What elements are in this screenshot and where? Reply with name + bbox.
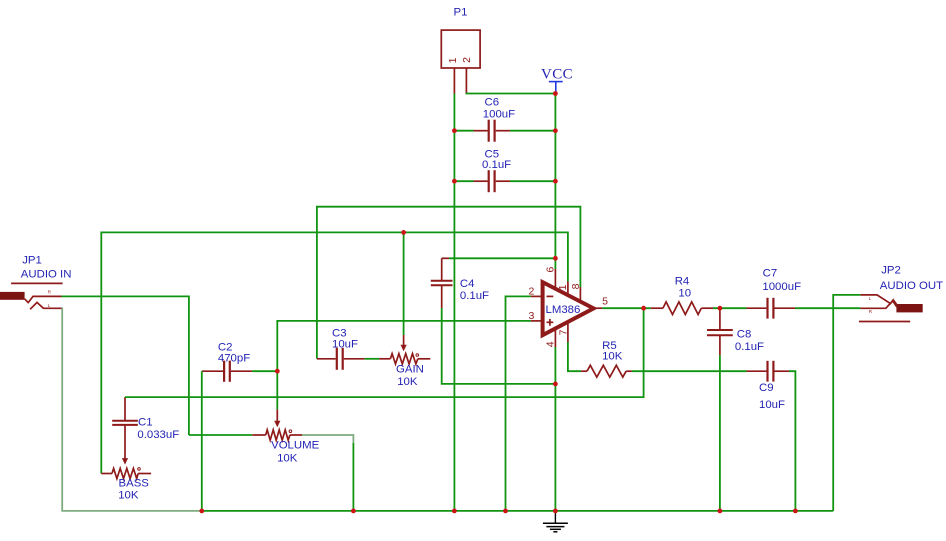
svg-text:AUDIO IN: AUDIO IN [21,269,72,281]
svg-text:C4: C4 [460,278,475,290]
svg-text:BASS: BASS [119,478,150,490]
svg-text:AUDIO OUT: AUDIO OUT [880,280,943,292]
pin 1 [567,282,569,296]
wire VOLUME right to ground bus (pale) [302,435,353,443]
wire pin7 down to R5 [568,342,581,371]
wire P1 pin2 to VCC node [466,92,555,95]
wire VCC rail down (x=555.4, y 93.5-258.3) [554,94,556,259]
svg-text:2: 2 [461,57,473,63]
node pin6/C4 [553,256,558,261]
node C6 right [553,128,558,133]
connector P1 [441,7,480,94]
supply VCC [541,67,573,94]
wire R5 to C9 [632,370,747,372]
capacitor C9 [747,361,790,411]
svg-text:1: 1 [447,57,459,63]
wire P1 pin1 rail down (x=454.4, y 93.5-510.9) [453,94,455,511]
wire pin4 to ground bus [554,347,556,511]
svg-text:10: 10 [678,288,691,300]
potentiometer BASS 10K [101,468,151,502]
svg-text:VCC: VCC [541,67,573,83]
wire pin3 to volume wiper (y=320.9) [277,321,531,410]
wire GAIN wiper up to pin1 net [403,232,405,335]
svg-text:1000uF: 1000uF [762,281,801,293]
svg-text:6: 6 [545,267,557,273]
svg-text:10K: 10K [277,453,298,465]
pin 7 [567,322,569,343]
capacitor C1 [112,397,179,465]
wire C7 to JP2 tip [795,307,860,309]
wire pin8 net top run (y=206.7) [317,207,581,359]
pin 2 [531,295,543,297]
node C6 left [452,128,457,133]
wire C2 right to volume wiper node [252,370,277,372]
resistor R4 [651,276,713,315]
svg-text:8: 8 [570,283,582,289]
node bus C9 [793,509,798,514]
wire R4 to C7/C8 node [713,307,747,309]
node bus ground [553,509,558,514]
svg-text:1: 1 [557,284,569,290]
wire pin2 to ground bus [506,296,531,511]
capacitor C8 [707,308,764,355]
pin 3 [531,320,543,322]
wire C2 left down to ground bus [201,371,203,511]
svg-text:R4: R4 [675,276,690,288]
pin 4 [554,329,556,348]
svg-text:5: 5 [602,296,608,308]
svg-text:10K: 10K [397,376,418,388]
wire JP1 sleeve to ground bus (pale) [62,308,202,511]
node R4/C7/C8 [718,306,723,311]
node bus P1 [452,509,457,514]
wire C1 top feedback run (y=397.1) [125,308,644,397]
svg-text:470pF: 470pF [218,353,250,365]
wire C3 to GAIN [365,358,379,360]
wire pin6 vertical below node [554,258,556,269]
potentiometer VOLUME 10K [252,409,319,464]
op-amp U1 LM386 [529,267,609,348]
svg-text:JP1: JP1 [22,254,42,266]
node C5 left [452,179,457,184]
svg-text:10K: 10K [602,351,623,363]
node C2/VOLUME wiper [275,369,280,374]
node bus VOLUME [351,509,356,514]
svg-text:C9: C9 [759,382,774,394]
capacitor C3 [317,328,365,370]
svg-text:C7: C7 [763,268,778,280]
svg-text:0.1uF: 0.1uF [735,341,764,353]
capacitor C4 [431,258,489,308]
jack JP1 AUDIO IN [0,254,71,309]
svg-text:100uF: 100uF [483,109,515,121]
node bus C8 [718,509,723,514]
wire JP2 L contact to ground bus [833,295,860,511]
resistor R5 [581,340,632,377]
node pin5/R4 [641,306,646,311]
wire pin1 net top run (y=232.4) [101,232,568,473]
capacitor C7 [747,268,802,319]
svg-text:0.033uF: 0.033uF [137,429,179,441]
svg-text:C8: C8 [737,329,752,341]
wire VOLUME left lead [189,434,252,436]
wire ground bus (y=510.9) [202,510,833,512]
node bus C2 [199,509,204,514]
svg-text:4: 4 [545,341,557,347]
wire C8 bottom to ground bus [719,355,721,511]
pin 5 [594,307,603,309]
node VCC [553,91,558,96]
svg-text:P1: P1 [454,7,468,19]
svg-text:LM386: LM386 [546,304,581,316]
potentiometer GAIN 10K [379,335,430,388]
node GAIN wiper [401,230,406,235]
capacitor C5 [454,149,555,193]
jack JP2 AUDIO OUT [859,265,943,322]
svg-text:VOLUME: VOLUME [271,440,320,452]
wire JP1 tip to volume (y=296.4) [62,296,189,435]
node C5 right [553,179,558,184]
svg-text:C1: C1 [138,417,153,429]
svg-text:10uF: 10uF [759,399,785,411]
svg-text:C6: C6 [485,97,500,109]
wire C4 top to pin6 (y=258.3) [449,257,555,259]
ground [543,511,568,532]
capacitor C2 [202,342,252,382]
capacitor C6 [454,97,555,142]
wire C9 right to ground bus [789,371,795,511]
wire C4 bottom to pin4 node [442,308,556,384]
svg-text:0.1uF: 0.1uF [460,290,489,302]
svg-text:10K: 10K [118,490,139,502]
node bus pin2 [503,509,508,514]
pin 8 [579,287,581,302]
node pin4/C4 [553,382,558,387]
wire pin5 output [602,307,651,309]
svg-text:7: 7 [557,329,569,335]
svg-text:JP2: JP2 [881,265,901,277]
svg-text:GAIN: GAIN [396,364,424,376]
pin 6 [554,269,556,290]
svg-text:0.1uF: 0.1uF [482,159,511,171]
